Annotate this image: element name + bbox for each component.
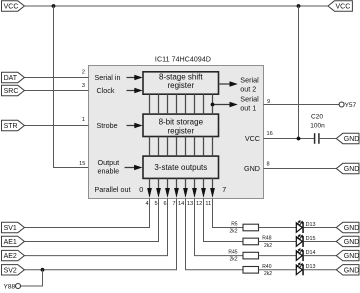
bus lines shift->storage xyxy=(150,94,213,114)
flag AE2 xyxy=(2,250,25,260)
pin label Output enable xyxy=(98,158,143,175)
svg-text:11: 11 xyxy=(205,201,211,207)
block 8-bit storage register xyxy=(143,114,219,136)
wire R40 to LED xyxy=(259,269,297,271)
bus lines storage->3state xyxy=(150,137,213,157)
svg-text:Serial: Serial xyxy=(240,76,259,85)
node Y57 xyxy=(339,102,356,109)
ground flag row 1 xyxy=(336,222,359,232)
svg-text:2k2: 2k2 xyxy=(264,271,272,277)
bus output arrows xyxy=(147,178,215,198)
svg-text:AE1: AE1 xyxy=(4,239,17,246)
svg-text:16: 16 xyxy=(267,131,273,137)
LED D13 xyxy=(296,262,315,275)
svg-text:GND: GND xyxy=(244,164,260,173)
svg-text:Strobe: Strobe xyxy=(97,121,118,130)
svg-text:8: 8 xyxy=(267,162,270,168)
svg-text:3: 3 xyxy=(82,83,85,89)
LED D13 xyxy=(296,220,315,233)
wire R48 to LED xyxy=(259,240,297,242)
block 3-state outputs xyxy=(143,156,219,178)
wire VCC top rail xyxy=(24,5,328,7)
svg-text:Serial: Serial xyxy=(240,95,259,104)
svg-text:STR: STR xyxy=(4,123,18,130)
svg-text:VCC: VCC xyxy=(336,4,351,11)
svg-text:D15: D15 xyxy=(306,236,316,242)
svg-text:R40: R40 xyxy=(262,264,271,270)
svg-text:9: 9 xyxy=(267,99,270,105)
wire parallel out 6 to LED row xyxy=(204,199,244,242)
ground flag row 3 xyxy=(336,250,359,260)
svg-text:8-stage shift: 8-stage shift xyxy=(159,72,203,81)
svg-text:0: 0 xyxy=(139,185,143,194)
svg-text:8-bit storage: 8-bit storage xyxy=(159,118,204,127)
svg-text:GND: GND xyxy=(344,239,360,246)
svg-text:SRC: SRC xyxy=(4,88,19,95)
svg-text:2: 2 xyxy=(82,70,85,76)
svg-text:12: 12 xyxy=(196,201,202,207)
flag SV2 xyxy=(2,265,25,275)
resistor R48 2k2 xyxy=(243,236,272,249)
flag SV1 xyxy=(2,222,25,232)
svg-text:VCC: VCC xyxy=(4,4,19,11)
resistor R45 2k2 xyxy=(228,250,258,263)
pin label Parallel out row xyxy=(95,185,227,194)
junction pin16/VCC drop xyxy=(297,137,301,141)
junction on VCC rail left xyxy=(52,4,56,8)
wire LED to GND xyxy=(304,240,337,242)
wire parallel out 4 to LED row xyxy=(186,199,244,270)
flag DAT xyxy=(2,72,25,82)
svg-text:VCC: VCC xyxy=(245,134,260,143)
svg-text:Serial in: Serial in xyxy=(95,73,121,82)
svg-text:out 1: out 1 xyxy=(240,104,256,113)
IC IC11 74HC4094D body xyxy=(89,66,264,199)
svg-text:register: register xyxy=(167,81,194,90)
pin numbers 4 5 6 7 14 13 12 11 xyxy=(145,201,211,207)
supply flag VCC top-left xyxy=(2,1,25,11)
svg-text:5: 5 xyxy=(154,201,157,207)
flag AE1 xyxy=(2,236,25,246)
supply flag VCC top-right xyxy=(328,1,352,11)
svg-text:DAT: DAT xyxy=(4,75,18,82)
pin label Serial out 1 xyxy=(213,95,260,113)
junction on VCC rail right xyxy=(297,4,301,8)
svg-text:2k2: 2k2 xyxy=(230,257,238,263)
wire LED to GND xyxy=(304,255,337,257)
wire R5 to LED xyxy=(259,227,297,229)
svg-text:Y88: Y88 xyxy=(4,284,16,291)
ground flag row 2 xyxy=(336,236,359,246)
node Y88 xyxy=(4,284,21,291)
svg-text:GND: GND xyxy=(344,136,360,143)
svg-text:AE2: AE2 xyxy=(4,253,17,260)
svg-text:out 2: out 2 xyxy=(240,84,256,93)
svg-text:2k2: 2k2 xyxy=(264,243,272,249)
wire capacitor to GND xyxy=(319,138,336,140)
flag STR xyxy=(2,120,25,130)
capacitor C20 100n xyxy=(310,114,325,144)
wire DAT to Serial in xyxy=(24,77,88,79)
svg-text:13: 13 xyxy=(187,201,193,207)
svg-text:C20: C20 xyxy=(311,114,323,121)
wire parallel out 7 to LED row xyxy=(213,199,244,228)
wire pin16 to capacitor xyxy=(264,138,315,140)
svg-text:enable: enable xyxy=(98,166,120,175)
pin label Serial out 2 xyxy=(219,76,260,94)
svg-text:3-state outputs: 3-state outputs xyxy=(154,163,207,172)
wire VCC drop to pin 16 xyxy=(298,6,300,139)
svg-text:15: 15 xyxy=(79,161,85,167)
wire Y88 to SV2 net xyxy=(21,270,43,286)
svg-text:GND: GND xyxy=(344,225,360,232)
svg-text:R45: R45 xyxy=(228,250,237,256)
LED D15 xyxy=(296,234,315,247)
svg-text:4: 4 xyxy=(145,201,148,207)
pin label Serial in xyxy=(95,73,143,82)
svg-text:1: 1 xyxy=(82,117,85,123)
svg-text:7: 7 xyxy=(222,185,226,194)
svg-text:7: 7 xyxy=(172,201,175,207)
svg-text:6: 6 xyxy=(163,201,166,207)
wire parallel out 3 to SV2 xyxy=(24,199,176,270)
ground flag pin8 xyxy=(336,163,359,173)
wire parallel out 0 to SV1 xyxy=(24,199,149,228)
svg-text:IC11 74HC4094D: IC11 74HC4094D xyxy=(155,57,211,64)
wire LED to GND xyxy=(304,269,337,271)
svg-text:SV1: SV1 xyxy=(4,225,17,232)
resistor R40 2k2 xyxy=(243,264,272,277)
ground flag row 4 xyxy=(336,265,359,275)
svg-text:SV2: SV2 xyxy=(4,267,17,274)
ground flag C20 xyxy=(336,133,359,143)
pin label Strobe xyxy=(97,121,143,130)
wire pin8 to GND xyxy=(264,168,337,170)
svg-text:R5: R5 xyxy=(231,222,238,228)
wire R45 to LED xyxy=(259,255,297,257)
junction serial out 1 tap xyxy=(211,103,215,107)
svg-text:2k2: 2k2 xyxy=(230,228,238,234)
wire parallel out 2 to AE2 xyxy=(24,199,167,256)
wire STR to Strobe xyxy=(24,125,88,127)
svg-text:R48: R48 xyxy=(262,236,271,242)
svg-text:register: register xyxy=(167,127,194,136)
block 8-stage shift register xyxy=(143,72,219,94)
svg-text:14: 14 xyxy=(178,201,184,207)
wire pin9 to Y57 xyxy=(264,104,340,106)
wire VCC drop to output-enable pin xyxy=(54,6,89,168)
wire SRC to Clock xyxy=(24,90,88,92)
svg-text:Clock: Clock xyxy=(97,86,115,95)
LED D14 xyxy=(296,248,315,261)
wire LED to GND xyxy=(304,227,337,229)
svg-text:Y57: Y57 xyxy=(345,102,357,109)
svg-text:GND: GND xyxy=(344,166,360,173)
svg-text:GND: GND xyxy=(344,253,360,260)
wire parallel out 5 to LED row xyxy=(195,199,244,256)
svg-text:GND: GND xyxy=(344,267,360,274)
flag SRC xyxy=(2,85,25,95)
junction SV2/Y88 xyxy=(41,268,45,272)
pin label Clock xyxy=(97,86,143,95)
resistor R5 2k2 xyxy=(230,222,259,235)
svg-text:100n: 100n xyxy=(310,123,325,130)
wire parallel out 1 to AE1 xyxy=(24,199,158,242)
svg-text:Parallel out: Parallel out xyxy=(95,185,131,194)
